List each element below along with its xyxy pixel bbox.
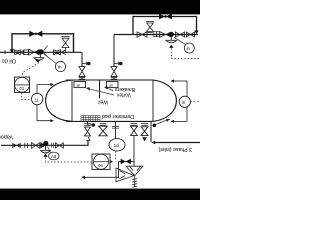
open bowtie 2 vapour line xyxy=(55,143,63,148)
vessel shell xyxy=(46,80,177,121)
weir inside vessel xyxy=(99,80,101,98)
svg-text:Ad: Ad xyxy=(51,154,57,159)
vessel left seam xyxy=(71,80,73,121)
vent valve standing on oil line xyxy=(61,37,69,53)
dashed signal right from valve actuator xyxy=(171,48,200,58)
signal line from PI circle to valve xyxy=(174,37,185,44)
bypass rejoin arrow down xyxy=(194,30,198,34)
valve on right main line (open bowtie) xyxy=(137,32,147,37)
wire vapour nozzle stub xyxy=(87,121,89,124)
nozzle x103 stub flange xyxy=(100,124,107,126)
wire vapour line xyxy=(1,141,88,146)
svg-text:Demister pad: Demister pad xyxy=(102,113,134,119)
LT square instrument (shared display) xyxy=(15,77,30,93)
dashed signal from vapour valve to PC square xyxy=(46,157,92,162)
valve V1 on oil line (open bowtie) xyxy=(15,50,21,55)
LT circle instrument xyxy=(32,93,43,104)
PI gauge nozzle line xyxy=(115,121,117,138)
svg-text:04: 04 xyxy=(98,163,103,168)
wire oil outlet line B xyxy=(0,51,82,53)
node junction right main xyxy=(169,32,174,37)
wire right bypass line xyxy=(133,17,197,35)
valve with flanges on vapour line xyxy=(13,143,21,148)
svg-text:Vortex: Vortex xyxy=(116,92,131,98)
vent valve standing on right main line xyxy=(146,21,154,32)
vessel left head xyxy=(46,80,72,121)
actuator of right control valve xyxy=(165,36,177,43)
control valve vapour line xyxy=(40,142,45,148)
node junction on oil line xyxy=(38,49,43,54)
vent stub with cap on riser1 xyxy=(82,62,86,65)
vapour nozzle flange xyxy=(84,124,91,126)
instrument circle (positioner) xyxy=(55,61,65,71)
actuator of oil control valve xyxy=(33,54,44,61)
valve on right bypass (filled bowtie) xyxy=(159,14,172,20)
right bridle xyxy=(186,81,188,121)
nozzle x103 valve (hourglass, capped) xyxy=(99,126,107,136)
valve after node (open bowtie) xyxy=(175,32,184,37)
wire riser from vessel bottom nozzle to oil line xyxy=(81,52,83,80)
control valve LV on oil line (half open half filled) xyxy=(29,49,35,55)
svg-text:an: an xyxy=(77,83,81,87)
left bridle bottom tap xyxy=(37,105,51,121)
PC square instrument xyxy=(92,154,110,170)
drain nozzle x144 valve (hourglass) xyxy=(141,127,148,136)
signal line to positioner circle xyxy=(43,54,57,65)
spectacle blind on right main line xyxy=(154,32,157,37)
wire inlet downcomer xyxy=(150,121,152,142)
flange riser1 xyxy=(79,78,85,80)
node dot at inlet nozzle xyxy=(153,124,157,128)
valve on line A (filled bowtie) xyxy=(29,31,42,37)
flanges after node vapour line xyxy=(52,143,54,148)
node on vapour line xyxy=(43,141,48,146)
PV ellipse positioner xyxy=(49,152,59,160)
svg-text:Oil (to storage): Oil (to storage) xyxy=(0,58,16,64)
spectacle blind on oil line xyxy=(21,50,24,54)
drain funnel xyxy=(116,166,143,187)
label arrow to box2 xyxy=(106,88,113,91)
actuator of vapour control valve xyxy=(40,146,51,154)
svg-text:Vapour (outlet): Vapour (outlet) xyxy=(0,133,13,139)
signal arrow up to actuator xyxy=(169,44,173,48)
flange riser2 xyxy=(111,78,117,80)
branch with valve to drain line xyxy=(119,161,135,163)
drain arrow down xyxy=(142,137,147,141)
PI ellipse xyxy=(109,139,125,151)
open bowtie vapour line xyxy=(32,143,40,149)
dashed signal right from LI xyxy=(191,101,201,103)
instrument circle PI top right xyxy=(184,43,194,53)
demister pad (hatched) xyxy=(81,116,100,122)
inlet diverter label arrow xyxy=(156,120,167,124)
drain nozzle x144 flange xyxy=(141,124,148,126)
vent stub with cap on riser2 xyxy=(114,62,118,65)
vortex breaker box 1 xyxy=(74,82,86,88)
left bridle top tap xyxy=(37,85,51,94)
svg-text:01: 01 xyxy=(20,86,25,91)
svg-text:m: m xyxy=(58,65,62,70)
svg-text:3 Phase (inlet): 3 Phase (inlet) xyxy=(158,146,192,152)
open arrow up on vapour riser xyxy=(86,137,90,141)
vessel right head xyxy=(153,80,176,121)
stub and cap dot right of vapour nozzle xyxy=(88,124,92,126)
svg-text:1d: 1d xyxy=(114,143,120,148)
control valve on right main line xyxy=(160,32,166,38)
label arrow to box1 xyxy=(89,89,115,95)
svg-text:an: an xyxy=(109,83,113,87)
drain nozzle x134 flange xyxy=(131,124,138,126)
block valve on riser1 (hourglass) xyxy=(79,67,85,77)
wire riser2 vessel nozzle to right main line xyxy=(113,35,115,80)
drain line down xyxy=(133,135,135,166)
signal line to PV ellipse xyxy=(48,147,51,153)
svg-text:Breakers: Breakers xyxy=(114,86,135,92)
valve on oil line (open bowtie 2) xyxy=(54,50,61,55)
signal dashed square to LT circle xyxy=(22,93,32,100)
flange tick at oil line end xyxy=(4,50,6,54)
LI circle instrument on bridle xyxy=(179,96,190,107)
wire right main line xyxy=(114,34,198,36)
letterbox bar top xyxy=(0,0,200,14)
letterbox bar bottom xyxy=(0,189,200,200)
signal dashed from actuator to square xyxy=(23,63,40,78)
arrow into PC square xyxy=(109,160,113,164)
arrow oil outlet (down) xyxy=(10,49,14,53)
block valve on riser2 (hourglass) xyxy=(111,67,117,77)
valve near corner (open bowtie) xyxy=(186,32,194,37)
wire inlet feed line xyxy=(154,142,200,144)
wire oil bypass line A xyxy=(12,34,74,53)
drain nozzle valve (hourglass) xyxy=(131,126,138,135)
flow arrow open on oil line xyxy=(62,50,66,55)
vessel right seam xyxy=(152,80,154,121)
spectacle blind vapour line xyxy=(25,143,28,148)
inlet arrow into downcomer xyxy=(152,141,156,145)
svg-text:Weir: Weir xyxy=(97,99,108,105)
dashed signal PI down to PC square xyxy=(115,151,117,161)
svg-text:11: 11 xyxy=(34,98,39,103)
PC square output line xyxy=(85,162,119,178)
vortex breaker box 2 xyxy=(107,82,119,88)
vapour nozzle valve (hourglass) xyxy=(85,127,91,136)
